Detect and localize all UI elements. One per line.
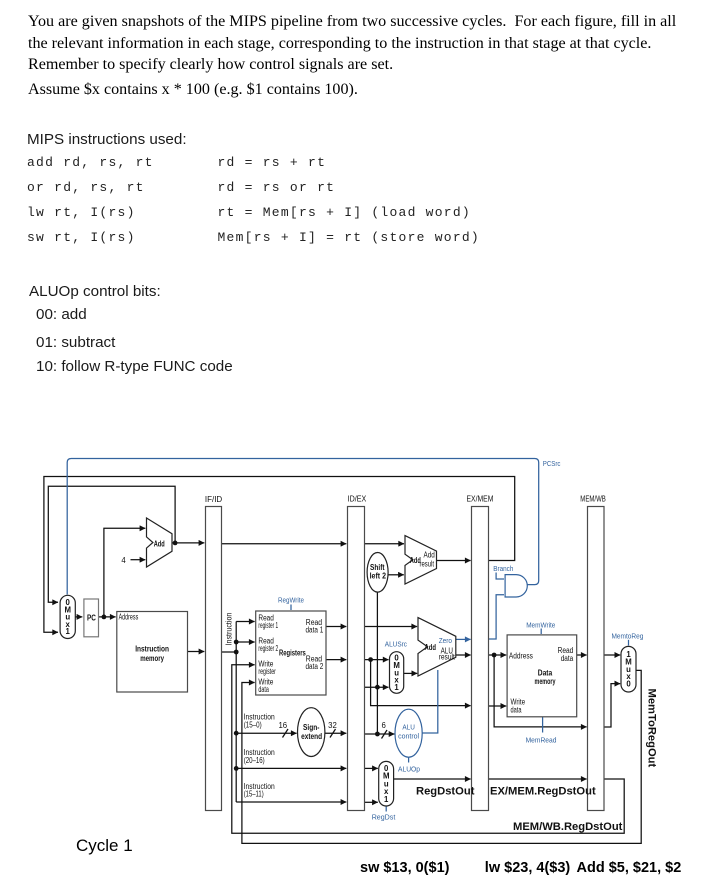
svg-text:memory: memory [140, 654, 164, 663]
svg-text:register: register [258, 667, 276, 676]
instruction memory box [117, 612, 188, 693]
wire PC to instruction memory address [99, 616, 116, 618]
wire ALU result to EX/MEM [456, 654, 471, 656]
pipeline register MEM/WB [588, 507, 605, 811]
junction read data 2 [368, 657, 373, 662]
svg-text:EX/MEM.RegDstOut: EX/MEM.RegDstOut [490, 786, 596, 798]
wire instruction 15-0 to sign extend [236, 732, 296, 734]
svg-text:4: 4 [121, 556, 126, 565]
registers box [256, 611, 326, 695]
wire immediate up to shift left 2 and down to funct [376, 592, 378, 734]
data memory box [507, 635, 577, 717]
wire PCSrc (blue) from AND gate output to PC mux select [67, 459, 539, 595]
wire EX/MEM RegDst to MEM/WB [489, 778, 587, 780]
svg-text:Zero: Zero [439, 636, 452, 645]
wire ALU control to ALU (blue) [422, 670, 438, 733]
wire to read register 2 [236, 641, 254, 643]
pipeline register IF/ID [206, 507, 222, 811]
wire read data 2 down to EX/MEM write data [371, 660, 471, 706]
mux RegDst (0/1) [379, 761, 394, 806]
svg-text:IF/ID: IF/ID [205, 494, 222, 504]
svg-text:PC: PC [87, 614, 96, 623]
svg-text:0: 0 [626, 679, 631, 688]
Cycle label [76, 836, 133, 856]
svg-text:RegDst: RegDst [372, 812, 396, 821]
svg-text:(15–0): (15–0) [244, 720, 262, 729]
code rows [27, 155, 154, 170]
MIPS instructions heading [27, 131, 187, 148]
pipeline register ID/EX [348, 507, 365, 811]
adder Add (PC+4) [147, 518, 173, 567]
svg-text:Sign-: Sign- [303, 723, 320, 732]
adder Add (branch target) [405, 536, 437, 584]
svg-text:register 1: register 1 [258, 621, 278, 630]
junction immediate [375, 685, 380, 690]
svg-text:ALUSrc: ALUSrc [385, 640, 407, 649]
mux MemtoReg (1/0) [621, 646, 636, 692]
junction funct [375, 732, 380, 737]
svg-text:memory: memory [535, 677, 556, 686]
wire read data 1 to ID/EX [326, 626, 346, 628]
wire read data 1 to ALU [365, 626, 418, 628]
pipeline register EX/MEM [472, 507, 489, 811]
svg-text:MemWrite: MemWrite [526, 620, 555, 629]
slash 6 [382, 730, 388, 739]
slash 32 [330, 729, 336, 738]
wire read data 2 to ID/EX [326, 659, 346, 661]
svg-text:Add: Add [154, 539, 165, 548]
wire instruction 15-11 to ID/EX [236, 801, 346, 803]
svg-text:RegDstOut: RegDstOut [416, 786, 475, 798]
wire read data 2 to ALUSrc mux 0 [365, 659, 389, 661]
wire instr 20-16 to RegDst mux 0 [365, 767, 378, 769]
wire Zero from EX/MEM to AND gate (blue) [489, 595, 505, 639]
wire funct field to ALU control [365, 733, 395, 735]
wire immediate to ALUSrc mux 1 [365, 686, 389, 688]
svg-text:ID/EX: ID/EX [348, 494, 367, 504]
svg-text:MemtoReg: MemtoReg [612, 632, 644, 641]
bottom instruction annotations [360, 860, 449, 876]
junction after PC [102, 615, 107, 620]
svg-text:Add: Add [425, 643, 437, 652]
wire mux to PC [75, 616, 82, 618]
tick MemRead (blue) [542, 717, 544, 733]
wire EX/MEM to data memory address [489, 654, 507, 656]
mux ALUSrc (0/1) [390, 652, 404, 694]
wire EX/MEM write data to data memory [489, 705, 507, 707]
svg-text:register 2: register 2 [258, 644, 278, 653]
junction instruction bus at IF/ID output [234, 650, 239, 655]
svg-text:result: result [439, 653, 456, 662]
wire shift left 2 to branch adder [388, 574, 404, 576]
wire PC value up to Add input [104, 528, 145, 617]
wire branch-target feedback from EX/MEM to PC mux input 1 [44, 477, 515, 633]
wire MEM/WB ALU result bypass to mux 0 [604, 684, 620, 727]
wire constant 4 into Add [131, 559, 146, 561]
wire Zero flag to EX/MEM (blue) [456, 638, 471, 640]
shift left 2 ellipse [367, 553, 388, 593]
wire instr 15-11 to RegDst mux 1 [365, 801, 378, 803]
svg-text:Instruction: Instruction [135, 645, 169, 654]
svg-text:Address: Address [509, 652, 533, 661]
slash 16 [283, 729, 289, 738]
tick RegDst (blue) [385, 806, 387, 812]
wire sign extend to ID/EX [325, 732, 347, 734]
svg-text:6: 6 [382, 721, 386, 730]
sign-extend ellipse [298, 708, 325, 757]
wire instruction 20-16 to ID/EX [236, 767, 346, 769]
paragraph 1 [28, 11, 676, 76]
wire ID/EX PC+4 to branch adder [365, 543, 405, 545]
svg-text:Address: Address [119, 613, 139, 622]
svg-text:32: 32 [328, 721, 337, 730]
wire Branch control into AND gate (blue) [496, 573, 504, 580]
junction instruction bus read reg2 [234, 640, 239, 645]
svg-text:data: data [511, 706, 522, 715]
svg-text:(20–16): (20–16) [244, 756, 265, 765]
svg-text:Instruction: Instruction [225, 613, 234, 646]
wire data memory read data to MEM/WB [577, 654, 587, 656]
wire RegDst mux output to EX/MEM [394, 778, 471, 780]
ALUOp heading [29, 283, 161, 300]
wire Add output to IF/ID [172, 542, 204, 544]
svg-text:MEM/WB.RegDstOut: MEM/WB.RegDstOut [513, 821, 623, 833]
svg-text:ALU: ALU [402, 723, 415, 732]
svg-text:RegWrite: RegWrite [278, 596, 304, 605]
wire PC+4 from IF/ID to ID/EX [222, 543, 347, 545]
svg-text:(15–11): (15–11) [244, 790, 264, 799]
tick MemWrite (blue) [540, 629, 542, 635]
wire instruction memory to IF/ID [188, 651, 205, 653]
svg-text:1: 1 [394, 683, 399, 692]
wire instruction vertical bus [235, 622, 237, 803]
ALU main [418, 618, 456, 676]
junction instruction bus imm [234, 731, 239, 736]
svg-text:data 2: data 2 [306, 662, 324, 671]
svg-text:MemToRegOut: MemToRegOut [646, 689, 658, 768]
paragraph 2 [28, 79, 358, 101]
junction instruction bus 20-16 [234, 766, 239, 771]
svg-text:data: data [561, 654, 574, 663]
tick MemtoReg (blue) [628, 640, 630, 646]
PC register box [84, 599, 99, 637]
svg-text:data: data [258, 685, 269, 694]
wire PC+4 feedback from Add output to PC mux input 0 [48, 486, 175, 602]
tick ALUOp (blue) [408, 757, 410, 762]
mux PCSrc (0/1) [60, 595, 75, 638]
ALU control ellipse [395, 709, 422, 757]
svg-text:PCSrc: PCSrc [543, 459, 561, 468]
svg-text:Registers: Registers [279, 648, 306, 657]
svg-text:MemRead: MemRead [526, 736, 557, 745]
svg-text:Branch: Branch [493, 564, 513, 573]
svg-text:control: control [398, 732, 419, 741]
AND gate (branch) [505, 575, 527, 597]
svg-text:data 1: data 1 [306, 626, 324, 635]
svg-text:16: 16 [278, 721, 287, 730]
junction address [492, 653, 497, 658]
wire to read register 1 [236, 621, 254, 623]
tick RegWrite (blue) [290, 605, 292, 611]
wire ALU result bypass to MEM/WB [494, 655, 586, 727]
wire instruction from IF/ID to bus [222, 651, 237, 653]
svg-text:Data: Data [538, 669, 553, 678]
wire MEM/WB read data to mux 1 [604, 654, 620, 656]
wire branch adder result to EX/MEM [437, 560, 471, 562]
svg-text:extend: extend [301, 732, 322, 741]
svg-text:left 2: left 2 [370, 572, 387, 581]
svg-text:1: 1 [384, 795, 389, 804]
svg-text:ALUOp: ALUOp [398, 765, 420, 774]
svg-text:1: 1 [66, 627, 71, 636]
wire MEM/WB.RegDstOut return to write register [232, 665, 624, 834]
svg-text:MEM/WB: MEM/WB [580, 494, 606, 504]
svg-text:Add: Add [424, 551, 435, 560]
svg-text:result: result [420, 560, 435, 569]
SHAPES [84, 507, 604, 811]
svg-text:EX/MEM: EX/MEM [467, 494, 494, 504]
junction Add output [173, 541, 178, 546]
wire ALUSrc mux output to ALU [404, 672, 418, 674]
wire MemToRegOut return to write data [242, 670, 641, 843]
